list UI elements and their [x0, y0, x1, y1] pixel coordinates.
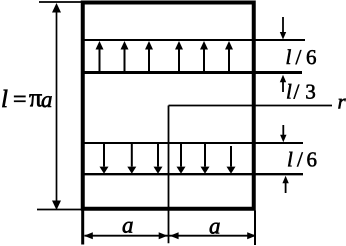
r leader / centre line vertical — [168, 106, 170, 244]
label l/6 (lower) — [288, 152, 292, 167]
bottom dim arrowhead centre-left — [159, 232, 168, 239]
bottom dim arrowhead left — [84, 232, 93, 239]
upper load arrow 6 — [225, 41, 233, 72]
upper band bottom line — [84, 71, 302, 74]
top extension line (left of box) — [39, 1, 83, 3]
lower load arrow 3 — [154, 144, 163, 174]
left dimension line l — [52, 3, 61, 210]
label a (right span) — [210, 223, 220, 234]
box border — [83, 3, 254, 209]
label l/3 — [287, 84, 291, 99]
right dim: down arrow above upper band — [280, 17, 286, 40]
lower load arrow 4 — [177, 144, 186, 174]
lower load arrow 1 — [100, 144, 109, 174]
label l/6 (upper) — [287, 49, 291, 64]
bottom dim arrowhead centre-right — [170, 232, 179, 239]
right dim: up arrow below lower band — [282, 176, 288, 193]
lower band bottom line — [84, 173, 303, 175]
lower load arrow 5 — [201, 144, 210, 174]
upper load arrow 5 — [200, 41, 208, 72]
upper load arrow 4 — [175, 41, 183, 72]
bottom right extension line — [254, 211, 256, 246]
right dim: up arrow below upper band — [280, 75, 286, 92]
r leader line horizontal — [169, 105, 333, 107]
right dim: down arrow above lower band — [280, 125, 286, 142]
label a (left span) — [123, 222, 133, 233]
lower load arrow 2 — [127, 144, 136, 174]
lower band top line — [84, 142, 303, 144]
bottom extension line (left of box) — [37, 209, 83, 211]
bottom dim arrowhead right — [247, 232, 256, 239]
upper band top line — [84, 39, 305, 41]
bottom dimension line — [85, 235, 256, 237]
lower load arrow 6 — [227, 146, 236, 174]
upper load arrow 3 — [145, 41, 153, 72]
label l = pi a — [2, 90, 7, 107]
upper load arrow 1 — [96, 41, 104, 72]
bottom left extension line — [81, 211, 84, 245]
label r — [338, 99, 345, 109]
upper load arrow 2 — [121, 41, 129, 72]
